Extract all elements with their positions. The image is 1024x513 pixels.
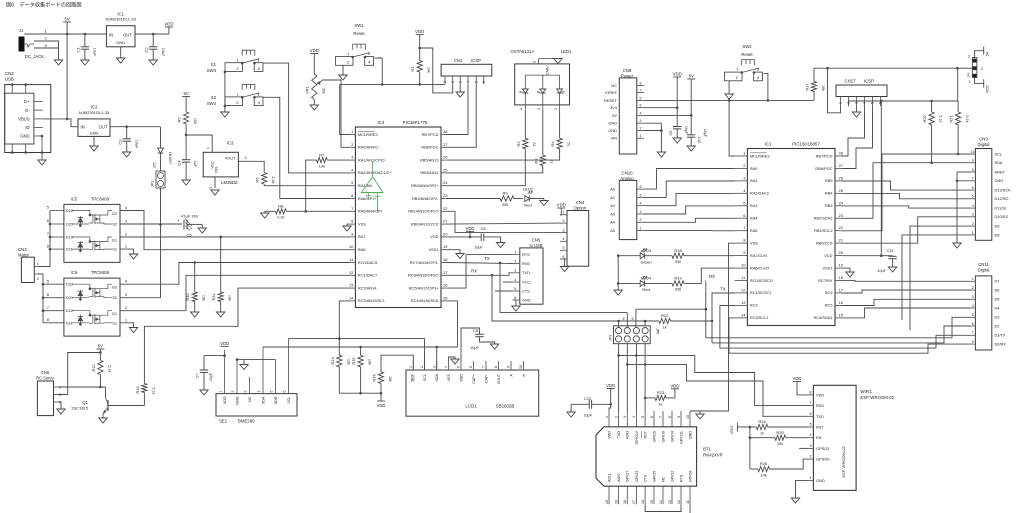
svg-text:RB5/AN13: RB5/AN13 — [420, 157, 438, 162]
ground VR1 — [310, 105, 318, 110]
svg-text:NC: NC — [611, 83, 617, 88]
wire CN5 CTS stub — [495, 290, 513, 292]
svg-text:5: 5 — [972, 313, 974, 317]
svg-text:5V: 5V — [689, 74, 694, 79]
svg-text:20: 20 — [443, 231, 448, 236]
svg-text:10: 10 — [686, 415, 690, 419]
svg-text:NJM2391DL1-33: NJM2391DL1-33 — [106, 17, 137, 22]
LED module LED1 OSTA5131A — [511, 49, 570, 110]
svg-text:Red: Red — [524, 203, 531, 208]
svg-text:15: 15 — [839, 312, 844, 317]
svg-text:5.1k: 5.1k — [965, 115, 969, 122]
svg-text:+: + — [177, 218, 180, 223]
svg-text:5: 5 — [871, 102, 875, 104]
svg-text:RC7/RX: RC7/RX — [818, 278, 833, 283]
svg-text:ESP-WROOM-02: ESP-WROOM-02 — [860, 395, 894, 400]
svg-text:VCC: VCC — [522, 279, 530, 284]
svg-text:16: 16 — [443, 283, 448, 288]
svg-text:10μF: 10μF — [877, 269, 886, 273]
svg-text:28: 28 — [443, 129, 448, 134]
svg-text:5: 5 — [640, 193, 642, 197]
svg-text:13: 13 — [349, 283, 354, 288]
svg-text:RB5: RB5 — [825, 178, 833, 183]
svg-text:7: 7 — [482, 366, 486, 368]
svg-text:IC1: IC1 — [765, 142, 772, 147]
svg-text:RA5: RA5 — [750, 228, 758, 233]
svg-text:VOUT: VOUT — [225, 157, 236, 161]
svg-text:A4: A4 — [610, 220, 616, 225]
svg-text:5: 5 — [514, 287, 516, 291]
svg-text:VDD: VDD — [557, 203, 566, 208]
svg-text:RB6/PGC: RB6/PGC — [421, 145, 438, 150]
svg-text:22: 22 — [839, 225, 844, 230]
wire SCL net — [842, 154, 971, 231]
wire JP2 pin2 to VDD trunk — [958, 68, 973, 101]
svg-text:GND: GND — [995, 178, 1004, 183]
svg-text:GPIO9: GPIO9 — [661, 431, 665, 442]
wire A4 to RA4 — [644, 218, 735, 222]
svg-text:3: 3 — [209, 187, 213, 189]
svg-text:6: 6 — [640, 96, 642, 100]
wire A0 to RA0 — [644, 169, 735, 190]
svg-text:20: 20 — [605, 500, 609, 504]
wire serial trunk to ESP TXD — [627, 286, 808, 416]
svg-text:R20: R20 — [922, 115, 927, 123]
svg-text:330: 330 — [675, 260, 681, 264]
power VDD at R1 — [415, 29, 424, 60]
svg-text:S2: S2 — [112, 222, 117, 227]
svg-text:5: 5 — [641, 416, 645, 418]
svg-text:17: 17 — [632, 500, 636, 504]
svg-text:RC4/SDA1: RC4/SDA1 — [813, 315, 832, 320]
svg-text:24: 24 — [443, 180, 448, 185]
svg-text:R13: R13 — [135, 386, 140, 394]
svg-text:D5: D5 — [995, 297, 1000, 302]
svg-text:GND: GND — [116, 40, 125, 45]
svg-text:3: 3 — [514, 269, 516, 273]
svg-text:GND: GND — [20, 134, 29, 139]
svg-text:A2: A2 — [610, 203, 615, 208]
svg-text:1: 1 — [514, 251, 516, 255]
svg-text:Reset: Reset — [741, 52, 753, 57]
wire CN1 pin2 VDD — [420, 48, 453, 93]
svg-text:R23: R23 — [657, 390, 665, 395]
connector CN1 ICSP — [441, 58, 492, 76]
svg-text:Digital: Digital — [978, 268, 990, 273]
resistor R24 1k — [750, 419, 809, 435]
svg-text:GND: GND — [90, 131, 99, 135]
wire D3 elbow to TX net — [706, 309, 971, 338]
svg-text:10uF: 10uF — [134, 140, 138, 149]
svg-text:8: 8 — [809, 390, 811, 394]
power 5V rail top-left — [63, 17, 71, 36]
wire 5V rail down to VBUS — [66, 34, 69, 120]
svg-text:VIN: VIN — [611, 136, 618, 141]
svg-text:VDD: VDD — [986, 85, 990, 93]
resistor R20 5.1k — [922, 101, 943, 164]
svg-text:LED4: LED4 — [641, 276, 652, 281]
switch SW1 Reset — [336, 23, 374, 65]
svg-text:2SC1815: 2SC1815 — [71, 406, 88, 411]
svg-text:LED3: LED3 — [641, 248, 652, 253]
svg-text:GPIO10: GPIO10 — [635, 431, 639, 444]
svg-text:CN11: CN11 — [978, 262, 989, 267]
svg-text:VDD: VDD — [430, 234, 438, 239]
svg-text:R6: R6 — [255, 177, 260, 183]
svg-text:VDD: VDD — [415, 29, 424, 34]
svg-text:RB4: RB4 — [825, 191, 833, 196]
wire ESP GPSO2 stub — [799, 447, 809, 449]
ground CN8 — [657, 152, 665, 157]
svg-text:RA7/CLKI: RA7/CLKI — [750, 253, 767, 258]
svg-text:1: 1 — [443, 81, 447, 83]
svg-text:10μF: 10μF — [470, 346, 479, 350]
ground R11 — [217, 312, 225, 317]
svg-text:6: 6 — [879, 102, 883, 104]
svg-text:RC5: RC5 — [825, 303, 833, 308]
svg-text:1: 1 — [640, 227, 642, 231]
ground C9 — [673, 138, 681, 143]
svg-text:R18: R18 — [674, 248, 682, 253]
wire CN5 GND to ground — [512, 300, 520, 311]
svg-text:18: 18 — [443, 257, 448, 262]
svg-text:AREF: AREF — [995, 169, 1006, 174]
wire IC5 S1 to ground — [120, 249, 134, 254]
svg-text:2: 2 — [514, 259, 516, 263]
svg-text:2: 2 — [59, 393, 61, 397]
svg-text:図6 データ収集ボードの回路図: 図6 データ収集ボードの回路図 — [6, 1, 82, 9]
svg-text:ADR: ADR — [274, 396, 278, 404]
svg-text:1: 1 — [409, 366, 413, 368]
svg-text:VSS: VSS — [447, 373, 451, 381]
wire D7 to RC7 — [842, 280, 971, 283]
connector CN6 RC Servo — [36, 370, 61, 416]
svg-text:RXD: RXD — [626, 431, 630, 439]
svg-text:4: 4 — [563, 237, 565, 241]
svg-text:D1/TX: D1/TX — [995, 333, 1006, 338]
svg-text:7: 7 — [972, 331, 974, 335]
svg-text:CN9: CN9 — [979, 137, 988, 142]
wire D0 elbow to RC3 — [729, 318, 971, 353]
capacitor C7 10uF — [196, 356, 225, 390]
svg-text:14: 14 — [741, 312, 746, 317]
svg-text:5: 5 — [457, 366, 461, 368]
wire pullup common to VDD — [339, 393, 381, 401]
svg-text:BME280: BME280 — [238, 419, 255, 424]
wire D4 to RC4 — [842, 308, 971, 318]
svg-text:8: 8 — [972, 168, 974, 172]
svg-text:BT1: BT1 — [703, 447, 711, 452]
ground SW2 — [725, 94, 733, 99]
diode D5 1N4007 — [151, 148, 172, 171]
svg-text:8: 8 — [494, 366, 498, 368]
svg-text:RC3/SCL1: RC3/SCL1 — [750, 315, 769, 320]
wire D5 to RC5 — [842, 299, 971, 305]
svg-text:5V: 5V — [986, 51, 990, 56]
svg-text:4: 4 — [514, 278, 516, 282]
svg-text:S2: S2 — [112, 295, 117, 300]
wire CN1 pin3 ground — [459, 84, 461, 92]
wire D2 elbow to R22 net — [712, 326, 971, 343]
svg-text:D8: D8 — [995, 232, 1000, 237]
ground R8 — [261, 213, 269, 218]
capacitor C2 10uF — [144, 33, 165, 60]
ground Q1 emitter — [99, 418, 107, 423]
ground C10 — [687, 146, 695, 151]
svg-text:RA2/DAC2: RA2/DAC2 — [750, 191, 769, 196]
resistor R22 1k — [659, 313, 713, 329]
svg-text:VDD: VDD — [606, 383, 615, 388]
resistor R7 10k — [304, 152, 350, 212]
wire CN6 pin2 to 5V — [58, 353, 100, 395]
svg-text:8: 8 — [640, 82, 642, 86]
svg-text:15: 15 — [443, 295, 448, 300]
wire S1 to ground rail — [224, 71, 227, 74]
svg-text:RN42XVP: RN42XVP — [703, 452, 723, 457]
wire RX trunk to R22 — [492, 275, 659, 322]
ground right PIC VSS1 — [842, 268, 855, 277]
svg-text:RXD: RXD — [522, 261, 530, 266]
svg-text:TXD: TXD — [617, 431, 621, 439]
svg-text:RB3: RB3 — [825, 203, 833, 208]
svg-text:2: 2 — [972, 222, 974, 226]
svg-text:VDD: VDD — [673, 72, 682, 77]
resistor R12 5.1k — [91, 360, 112, 388]
ground BT1 GND pin10 — [690, 411, 704, 419]
power 5V servo — [96, 344, 104, 361]
wire col3 trunk to RX riser — [636, 281, 707, 311]
svg-text:IC3: IC3 — [227, 141, 234, 146]
svg-text:VDD: VDD — [607, 431, 611, 439]
wire serial trunk to ESP RXD — [619, 274, 809, 406]
ground BME GND — [240, 365, 248, 370]
svg-text:2: 2 — [972, 286, 974, 290]
svg-text:1: 1 — [206, 147, 210, 149]
svg-text:RB4/AN11: RB4/AN11 — [420, 170, 438, 175]
svg-text:RB3/AN9/OP2+: RB3/AN9/OP2+ — [411, 183, 439, 188]
svg-text:VSS: VSS — [215, 166, 219, 174]
switch SW2 Reset — [725, 44, 763, 81]
ground R10 — [191, 312, 199, 317]
svg-text:D3: D3 — [995, 315, 1000, 320]
ground C3 — [123, 152, 131, 157]
svg-text:10k: 10k — [777, 442, 783, 446]
svg-text:SB1602B: SB1602B — [496, 404, 515, 409]
power VDD at VR1 — [310, 48, 319, 74]
svg-text:19: 19 — [443, 244, 448, 249]
svg-text:D9: D9 — [995, 224, 1000, 229]
wire CN8 3V3 to VDD — [644, 107, 677, 109]
ground SW1 — [339, 75, 347, 80]
svg-text:5: 5 — [563, 246, 565, 250]
svg-text:RC0/SOSCO: RC0/SOSCO — [750, 278, 773, 283]
svg-text:RX: RX — [471, 269, 477, 274]
svg-text:D10/SS: D10/SS — [995, 214, 1009, 219]
svg-text:RA2/AN2/DAC1/C+: RA2/AN2/DAC1/C+ — [358, 170, 393, 175]
svg-text:R4: R4 — [550, 141, 555, 147]
wire A3 to RA3 — [644, 206, 735, 214]
capacitor C9 10uF — [669, 126, 688, 138]
svg-text:GPIO5: GPIO5 — [652, 471, 656, 482]
svg-text:VSS1: VSS1 — [429, 247, 439, 252]
svg-text:4: 4 — [640, 202, 642, 206]
svg-text:SCL: SCL — [287, 397, 291, 404]
svg-text:RB1/SCL2: RB1/SCL2 — [814, 228, 832, 233]
svg-text:8: 8 — [972, 340, 974, 344]
svg-text:RST: RST — [412, 373, 416, 381]
svg-text:1: 1 — [839, 102, 843, 104]
svg-text:CAP+: CAP+ — [472, 374, 476, 384]
wire IC4 RC0 pin11 to IC6 G2 — [120, 261, 350, 284]
ground CN4 — [560, 259, 569, 272]
svg-text:51: 51 — [566, 142, 570, 146]
power VDD bar R24 — [729, 423, 751, 435]
svg-text:S1: S1 — [112, 247, 117, 252]
power VDD at C6 — [446, 226, 481, 238]
ground LED2 — [540, 201, 548, 206]
svg-text:D+: D+ — [24, 99, 30, 104]
svg-text:IN: IN — [81, 125, 85, 130]
svg-text:A1: A1 — [610, 195, 615, 200]
svg-text:OSTA5131A: OSTA5131A — [511, 49, 535, 54]
connector J1 DC jack — [19, 28, 48, 59]
svg-text:WIFI1: WIFI1 — [860, 389, 872, 394]
wire CN5 RTS to IC4 RC5 — [446, 255, 513, 289]
LED rail for LED3 LED4 — [617, 254, 620, 290]
svg-text:C10: C10 — [697, 137, 701, 144]
svg-text:OUT: OUT — [99, 125, 108, 130]
LED LED4 Red — [618, 276, 672, 293]
wire LCD VSS hook to ground arrow — [449, 357, 460, 364]
svg-text:RA5/AN4/CPI-: RA5/AN4/CPI- — [358, 209, 384, 214]
wire SDA net — [842, 163, 971, 219]
svg-text:C11: C11 — [886, 248, 894, 253]
svg-text:RC0/DAC5: RC0/DAC5 — [358, 260, 377, 265]
svg-text:2: 2 — [614, 416, 618, 418]
svg-text:SW3: SW3 — [207, 68, 217, 73]
ground S1 S2 — [221, 112, 229, 117]
wire D8 — [902, 235, 971, 320]
svg-text:RC4/AN16/SDA: RC4/AN16/SDA — [411, 298, 439, 303]
svg-text:RA1: RA1 — [750, 178, 758, 183]
svg-text:18: 18 — [623, 500, 627, 504]
svg-text:2.2k: 2.2k — [277, 216, 284, 220]
svg-text:ICSP: ICSP — [864, 79, 874, 84]
svg-text:10μF: 10μF — [474, 246, 483, 250]
svg-text:RA4: RA4 — [750, 216, 758, 221]
ground C12 — [567, 412, 575, 417]
module BT1 RN42XVP body — [596, 411, 723, 504]
svg-text:A0: A0 — [610, 187, 616, 192]
svg-text:OUT: OUT — [123, 33, 132, 38]
svg-text:PIC16D18857: PIC16D18857 — [792, 142, 820, 147]
svg-text:5: 5 — [270, 390, 274, 392]
wire JP3 col4 — [644, 321, 647, 411]
svg-text:R14: R14 — [330, 357, 335, 365]
svg-text:4: 4 — [972, 204, 974, 208]
LED LED3 Green — [618, 248, 672, 265]
svg-text:RC2: RC2 — [750, 303, 758, 308]
wire SW2 left to ground and reset line — [728, 81, 730, 94]
svg-text:CN8: CN8 — [623, 68, 632, 73]
ground CN9 — [953, 243, 961, 248]
ground IC3 VSS — [211, 190, 219, 195]
svg-text:RA7: RA7 — [358, 234, 366, 239]
svg-text:JP1: JP1 — [151, 181, 155, 187]
resistor R5 100 — [177, 112, 198, 136]
wire CN6 pin3 ground — [57, 402, 65, 414]
svg-text:3: 3 — [809, 444, 811, 448]
svg-text:GND: GND — [688, 431, 692, 440]
net flag LED1 — [554, 49, 572, 64]
svg-text:1: 1 — [59, 386, 61, 390]
svg-text:1: 1 — [972, 277, 974, 281]
svg-text:to USB: to USB — [530, 243, 543, 248]
svg-text:LM35DZ: LM35DZ — [221, 180, 238, 185]
wire CN1 pin5 PGC to RB6 — [446, 84, 476, 147]
svg-text:5: 5 — [640, 104, 642, 108]
op-amp OP1 internal (green) — [361, 162, 383, 213]
svg-text:25: 25 — [839, 188, 844, 193]
svg-text:5V: 5V — [612, 113, 617, 118]
svg-text:C2: C2 — [144, 47, 149, 53]
svg-text:4: 4 — [444, 366, 448, 368]
svg-text:Reset: Reset — [353, 31, 365, 36]
svg-text:RC Servo: RC Servo — [36, 376, 54, 381]
wire right PIC TX riser V2 — [712, 293, 735, 343]
svg-text:1: 1 — [972, 231, 974, 235]
svg-text:2: 2 — [451, 81, 455, 83]
ground ESP — [791, 498, 799, 503]
svg-text:VDD: VDD — [376, 403, 385, 408]
svg-text:RA6/CLKO: RA6/CLKO — [750, 265, 769, 270]
wire CN17 pin5 PGC — [842, 106, 873, 169]
wire D13 to RB5 — [842, 181, 971, 190]
svg-text:3: 3 — [640, 210, 642, 214]
wire SCL trunk — [289, 339, 425, 370]
svg-text:Green: Green — [640, 260, 651, 265]
svg-text:A3: A3 — [610, 211, 615, 216]
svg-text:TX: TX — [720, 286, 726, 291]
wire motor supply rail to IC6 S2 — [120, 224, 161, 297]
wire D11 to RB3 — [842, 206, 971, 208]
ground CN1 — [456, 92, 464, 97]
svg-text:330: 330 — [675, 288, 681, 292]
svg-text:CN17: CN17 — [845, 79, 857, 84]
wire IC4 RC2 pin13 to R13 — [144, 288, 350, 383]
svg-text:20k: 20k — [322, 88, 326, 94]
svg-text:GPIO11: GPIO11 — [679, 431, 683, 444]
svg-text:14: 14 — [349, 295, 354, 300]
svg-text:10μF: 10μF — [209, 372, 213, 381]
svg-text:10: 10 — [971, 150, 975, 154]
svg-text:G2: G2 — [112, 211, 117, 216]
svg-text:VDD: VDD — [220, 341, 229, 346]
capacitor C6 10uF — [474, 226, 500, 250]
wire A5 to RA5 — [644, 230, 735, 232]
sensor SE1 BME280 — [216, 338, 297, 423]
power 5V at R5 — [182, 91, 190, 112]
ground C8 — [491, 344, 499, 349]
svg-text:10k: 10k — [228, 295, 232, 301]
svg-text:USB: USB — [5, 77, 14, 82]
svg-text:23: 23 — [443, 193, 448, 198]
capacitor C4 1uF — [177, 135, 198, 180]
svg-text:SW1: SW1 — [354, 23, 364, 28]
svg-text:C6: C6 — [480, 226, 486, 231]
svg-text:5: 5 — [632, 317, 634, 321]
svg-text:3: 3 — [855, 102, 859, 104]
